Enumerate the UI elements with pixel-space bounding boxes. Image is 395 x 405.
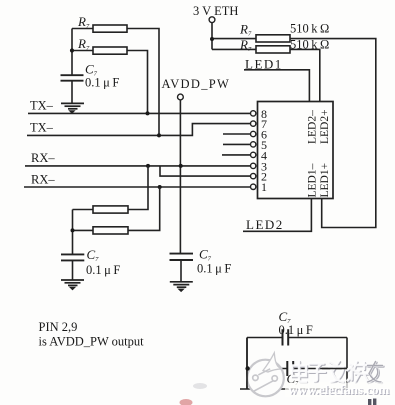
IC U1 body <box>258 102 334 199</box>
wire: left bus down to C2 <box>72 210 74 255</box>
svg-text:RX–: RX– <box>31 173 55 187</box>
wire: RX1 branch to pin2 <box>160 166 251 176</box>
svg-text:LED2+: LED2+ <box>319 109 331 144</box>
wire: C4 right lead <box>289 337 348 339</box>
wire: R4 right lead down to IC top <box>290 49 320 101</box>
svg-text:RX–: RX– <box>31 151 55 165</box>
node: TX1/R2 junction <box>146 111 150 115</box>
rail RX-1 to pin3 <box>25 166 251 176</box>
node: 3V junction <box>210 37 214 41</box>
wire: R4 left lead <box>212 48 256 50</box>
watermark chinese glyphs (approx) <box>292 361 384 383</box>
svg-text:3 V ETH: 3 V ETH <box>193 4 238 18</box>
svg-text:PIN 2,9: PIN 2,9 <box>39 320 78 334</box>
wire: R2 right lead down to TX1 <box>127 51 148 114</box>
capacitor C2 plates <box>61 254 84 260</box>
node: TX2/R1 junction <box>157 133 161 137</box>
wire: R1 right lead down to TX2 <box>127 29 159 136</box>
node: RX1/AVDD junction <box>179 164 183 168</box>
wire: R2 left lead <box>72 50 93 52</box>
resistor R3 <box>256 35 290 42</box>
wire: C5 right lead visible through watermark <box>322 368 347 370</box>
svg-text:1: 1 <box>261 180 267 194</box>
pin circles <box>251 111 256 190</box>
ground G2 <box>170 282 193 292</box>
watermark url text <box>285 383 392 397</box>
svg-text:is AVDD_PW output: is AVDD_PW output <box>39 335 145 349</box>
resistor R1 <box>93 25 127 32</box>
wire: LED2 net <box>243 199 311 232</box>
wire: C1 to ground <box>71 81 73 103</box>
wire: top-left vertical bus x72 <box>71 29 73 76</box>
ground G1 <box>61 103 84 113</box>
wire: C5 left vertical redrawn over logo <box>246 338 248 390</box>
capacitor C1 plates <box>61 75 84 81</box>
watermark last glyph accent <box>368 362 383 383</box>
wire: LED1 net to IC top <box>244 70 309 102</box>
rail RX-2 to pin1 <box>24 186 251 188</box>
node: RX2/R6 junction <box>158 185 162 189</box>
svg-text:510 k Ω: 510 k Ω <box>290 37 329 51</box>
svg-text:0.1 μ F: 0.1 μ F <box>197 262 231 276</box>
rail TX-1 <box>28 112 251 114</box>
svg-text:LED2–: LED2– <box>307 110 319 144</box>
wire: R1 left lead <box>72 28 93 30</box>
bottom-right: capacitor C4 network <box>240 329 347 389</box>
wire: R5 right lead up to RX1 <box>128 166 148 210</box>
terminal 3V ETH <box>209 17 215 23</box>
wire: 3V down <box>211 23 213 50</box>
svg-text:R7: R7 <box>77 14 90 30</box>
watermark logo circle <box>247 353 284 397</box>
wire: R3 left lead <box>212 38 256 40</box>
wire: C3 to ground <box>180 260 182 282</box>
svg-text:R7: R7 <box>239 37 252 53</box>
node: RX1/R5 junction <box>146 164 150 168</box>
capacitor C5 plates <box>287 361 293 376</box>
svg-text:LED1+: LED1+ <box>319 163 331 198</box>
resistor R4 <box>256 46 290 53</box>
svg-text:TX–: TX– <box>30 121 54 135</box>
gray smudge <box>193 383 207 389</box>
resistor R2 <box>93 47 127 54</box>
wire: C5 left lead <box>247 368 287 370</box>
svg-text:R7: R7 <box>239 22 252 38</box>
svg-text:AVDD_PW: AVDD_PW <box>162 77 231 91</box>
wire: R6 right lead up to RX2 <box>128 187 160 230</box>
wire: R3 right lead to right loop down <box>290 39 376 228</box>
dark marks bottom-right <box>368 399 376 405</box>
wire: R6 left lead <box>73 229 94 231</box>
wire: C4 left lead <box>247 337 282 339</box>
svg-text:C7: C7 <box>87 247 100 263</box>
ground G3 <box>61 280 84 290</box>
terminal AVDD_PW <box>178 94 184 100</box>
wire: left vertical <box>246 338 248 390</box>
svg-text:510 k Ω: 510 k Ω <box>290 22 329 36</box>
capacitor C4 plates <box>283 329 289 345</box>
svg-text:www.elecfans.com: www.elecfans.com <box>288 382 389 397</box>
svg-text:R7: R7 <box>77 36 90 52</box>
wire: AVDD vertical down to C3 <box>179 100 181 254</box>
svg-text:TX–: TX– <box>30 99 54 113</box>
svg-text:0.1 μ F: 0.1 μ F <box>279 323 313 337</box>
resistor R6 <box>93 227 128 234</box>
wire: bottom rail <box>240 388 347 390</box>
svg-text:0.1 μ F: 0.1 μ F <box>86 263 120 277</box>
pin stubs 6,5,4 <box>222 134 251 155</box>
node: R6 left junction <box>71 228 75 232</box>
svg-text:0.1 μ F: 0.1 μ F <box>85 76 119 90</box>
resistor R5 <box>61 166 160 280</box>
pin numbers 8..1 <box>261 107 267 194</box>
svg-text:LED1: LED1 <box>245 57 283 72</box>
wire: C5 right lead <box>294 368 348 370</box>
wire: right vertical <box>346 338 348 390</box>
svg-text:LED1–: LED1– <box>307 163 319 197</box>
node: R2/C1 junction <box>70 48 74 52</box>
node: C5 left junction <box>245 366 249 370</box>
svg-text:C7: C7 <box>199 247 212 263</box>
wire: C2 to ground <box>72 260 74 279</box>
red smudge bottom-left <box>180 399 193 405</box>
rail TX-2 to pin7 <box>27 124 251 136</box>
capacitor C3 plates <box>170 254 194 260</box>
wire: R5 left lead <box>73 209 94 211</box>
svg-text:LED2: LED2 <box>246 217 284 232</box>
